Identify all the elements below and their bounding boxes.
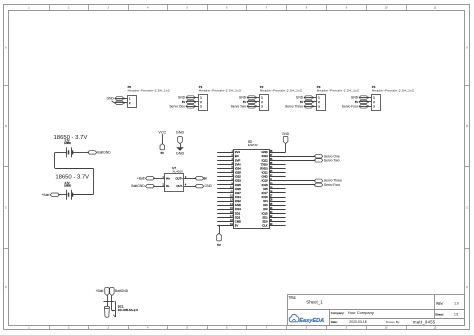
svg-text:5V: 5V (161, 151, 165, 155)
svg-text:Date:: Date: (331, 320, 338, 324)
svg-text:GND: GND (239, 96, 247, 100)
P1 pin 3 wire (186, 106, 199, 108)
svg-text:+Batt: +Batt (96, 289, 104, 293)
connector P3 (Header-Female-2.54_1x3) (317, 85, 360, 110)
title block frame (287, 295, 465, 326)
svg-text:Header-Female-2.54_1x3: Header-Female-2.54_1x3 (317, 89, 359, 93)
ground symbol GND (176, 130, 185, 155)
wire OUT- to GND (184, 186, 195, 188)
net flag +Batt at B2 (42, 193, 60, 197)
svg-text:2020-03-18: 2020-03-18 (349, 320, 366, 324)
P1 pin 1 wire (186, 97, 199, 99)
svg-text:B: B (5, 124, 7, 128)
DC-DC converter U? XL4015 (163, 166, 187, 192)
title block TITLE cell (289, 296, 324, 304)
wire DC1 center pin (107, 296, 109, 307)
svg-text:18650: 18650 (64, 184, 71, 187)
svg-text:5V: 5V (235, 224, 239, 228)
svg-text:BattGND: BattGND (97, 151, 111, 155)
svg-text:BattGND: BattGND (131, 184, 145, 188)
net flag +Batt at DC1 (96, 288, 110, 296)
svg-text:GND: GND (178, 96, 186, 100)
net flag Servo Three (314, 179, 342, 183)
svg-text:BattGND: BattGND (115, 289, 129, 293)
connector P4 (Header-Female-2.54_1x3) (372, 85, 415, 110)
wire U2 pin38 to GND flag (285, 144, 287, 153)
svg-text:Servo Two: Servo Two (231, 104, 247, 108)
wire +Batt to IN+ (154, 178, 165, 180)
net flag Servo Four on P4 pin 3 (342, 104, 369, 108)
net flag GND on P0 pin 1 (107, 96, 125, 100)
svg-text:5V: 5V (300, 100, 303, 104)
title block REV cell (436, 301, 459, 305)
svg-text:Header-Female-2.54_1x3: Header-Female-2.54_1x3 (372, 89, 414, 93)
wire DC1 sleeve (112, 296, 116, 312)
title block Company cell (331, 310, 374, 315)
net flag 5V on P1 pin 2 (182, 100, 196, 104)
svg-text:C: C (466, 206, 468, 210)
svg-text:IN+: IN+ (166, 176, 171, 180)
svg-text:18650 - 3.7V: 18650 - 3.7V (55, 175, 89, 181)
net flag GND on P3 pin 1 (296, 96, 314, 100)
svg-text:Servo Four: Servo Four (324, 183, 341, 187)
connector P1 (Header-Female-2.54_1x3) (199, 85, 242, 110)
net flag 5V on P3 pin 2 (300, 100, 314, 104)
P2 pin 1 wire (247, 97, 260, 99)
net flag GND on P1 pin 1 (178, 96, 196, 100)
net label VCC tied to 5V flag (158, 130, 166, 155)
svg-text:5V: 5V (204, 177, 207, 180)
wire OUT+ to +5V (184, 178, 195, 180)
P4 pin 3 wire (359, 106, 372, 108)
svg-text:Header-Female-2.54_1x3: Header-Female-2.54_1x3 (260, 89, 302, 93)
svg-text:Sheet_1: Sheet_1 (306, 299, 323, 304)
U2 right pin numbers 38-20 (270, 150, 273, 226)
border zone letters (5, 46, 468, 290)
net flag Servo Four (314, 183, 341, 187)
svg-text:Drawn By:: Drawn By: (386, 320, 400, 324)
svg-text:Header-Female-2.54_1x2: Header-Female-2.54_1x2 (128, 89, 170, 93)
wire BattGND to IN- (154, 186, 165, 188)
net flag 5V at U2 pin 19 (217, 233, 222, 247)
svg-text:B: B (466, 124, 468, 128)
svg-text:18650 - 3.7V: 18650 - 3.7V (54, 135, 88, 141)
B2 left terminal wire (59, 194, 67, 196)
svg-text:5V: 5V (243, 100, 246, 104)
svg-text:D: D (5, 285, 7, 289)
svg-text:GND: GND (296, 96, 304, 100)
svg-text:A: A (466, 46, 468, 50)
svg-text:GND: GND (205, 184, 213, 188)
svg-text:EasyEDA: EasyEDA (299, 318, 324, 324)
wire U2 to Servo Four flag (286, 184, 315, 186)
U2 left pin numbers 1-19 (230, 150, 233, 226)
P1 pin 2 wire (186, 101, 199, 103)
svg-text:GND: GND (282, 132, 290, 136)
border zone ticks left/right (3, 86, 469, 249)
P3 pin 3 wire (304, 106, 317, 108)
B1 left terminal wire (55, 152, 67, 154)
P4 pin 2 wire (359, 101, 372, 103)
P2 pin 2 wire (247, 101, 260, 103)
P0 pin 1 wire (115, 98, 128, 100)
net flag Servo One on P1 pin 3 (169, 104, 196, 108)
title block Sheet cell (435, 313, 459, 317)
svg-text:5V: 5V (355, 100, 358, 104)
svg-text:Your Company: Your Company (348, 310, 374, 315)
svg-text:+Batt: +Batt (42, 193, 50, 197)
net flag GND at U2 pin 38 (282, 132, 290, 143)
svg-text:GND: GND (351, 96, 359, 100)
net flag BattGND at B1 (87, 151, 111, 155)
net flag +5V at U? OUT+ (195, 177, 208, 181)
svg-text:ESP32: ESP32 (248, 143, 258, 147)
svg-text:D: D (466, 285, 468, 289)
P4 pin 1 wire (359, 97, 372, 99)
border zone ticks top/bottom (50, 4, 407, 329)
svg-text:Servo Two: Servo Two (324, 158, 340, 162)
net flag +Batt at U? IN+ (137, 176, 155, 180)
EasyEDA logo (289, 315, 324, 324)
net flag Servo One (314, 154, 340, 158)
net flag BattGND at DC1 (110, 288, 129, 296)
svg-text:XL4015: XL4015 (172, 169, 183, 173)
net flag BattGND at U? IN- (131, 184, 155, 188)
P0 pin 2 flag lead stub (112, 101, 115, 103)
svg-text:Company:: Company: (331, 311, 345, 315)
net flag Servo Three on P3 pin 3 (285, 104, 314, 108)
wire U2 pin19 5V to flag (218, 225, 220, 234)
P0 pin 2 wire (115, 102, 128, 104)
svg-text:DC-005-5A-2.0: DC-005-5A-2.0 (118, 308, 139, 312)
svg-text:CLK: CLK (262, 224, 268, 228)
svg-text:Servo One: Servo One (169, 104, 185, 108)
B2 right terminal wire (73, 194, 93, 196)
svg-text:REV:: REV: (436, 301, 443, 305)
net flag GND at U? OUT- (195, 184, 213, 188)
svg-text:GND: GND (176, 151, 185, 155)
net flag Servo Two (314, 158, 340, 162)
DC barrel jack DC1 DC-005-5A-2.0 (104, 301, 139, 317)
series wire B1- to B2+ (55, 152, 94, 194)
svg-text:1.0: 1.0 (454, 301, 459, 305)
P3 pin 1 wire (304, 97, 317, 99)
svg-text:Servo Four: Servo Four (342, 104, 359, 108)
svg-text:18650: 18650 (64, 142, 71, 145)
svg-text:OUT+: OUT+ (176, 176, 184, 180)
wire U2 to Servo One flag (286, 156, 315, 158)
net flag 5V on P2 pin 2 (243, 100, 257, 104)
connector P2 (Header-Female-2.54_1x3) (260, 85, 303, 110)
net flag GND on P2 pin 1 (239, 96, 257, 100)
svg-text:matt_9455: matt_9455 (413, 319, 436, 324)
svg-text:5V: 5V (182, 100, 185, 104)
P2 pin 3 wire (247, 106, 260, 108)
microcontroller module U2 ESP32 (234, 139, 270, 228)
svg-text:TITLE:: TITLE: (289, 296, 297, 299)
battery B1 (top) 18650 3.7V (54, 135, 88, 158)
svg-text:GND: GND (107, 96, 115, 100)
svg-text:A: A (5, 46, 7, 50)
svg-text:Header-Female-2.54_1x3: Header-Female-2.54_1x3 (199, 89, 241, 93)
U2 left pin wires (217, 153, 233, 226)
B1 right terminal wire (73, 152, 88, 154)
wire U2 to Servo Two flag (286, 160, 315, 162)
connector P0 (Header-Female-2.54_1x2) (128, 85, 170, 107)
U2 right pin wires (269, 153, 286, 226)
svg-text:VCC: VCC (158, 130, 166, 134)
svg-text:IN-: IN- (166, 184, 170, 188)
svg-text:Servo Three: Servo Three (285, 104, 303, 108)
title block Date cell (331, 319, 436, 324)
net flag GND on P4 pin 1 (351, 96, 369, 100)
svg-text:Sheet:: Sheet: (435, 313, 444, 317)
svg-text:5V: 5V (217, 243, 221, 247)
battery B2 (bottom) 18650 3.7V (55, 175, 89, 200)
svg-text:1/1: 1/1 (454, 313, 459, 317)
net flag Servo Two on P2 pin 3 (231, 104, 258, 108)
wire U2 to Servo Three flag (286, 180, 315, 182)
svg-text:+Batt: +Batt (137, 176, 145, 180)
P3 pin 2 wire (304, 101, 317, 103)
net flag 5V on P4 pin 2 (355, 100, 369, 104)
svg-text:GND: GND (176, 130, 185, 134)
svg-text:C: C (5, 206, 7, 210)
svg-text:OUT-: OUT- (176, 184, 183, 188)
net flag (unnamed) on P0 pin 2 (115, 101, 125, 104)
